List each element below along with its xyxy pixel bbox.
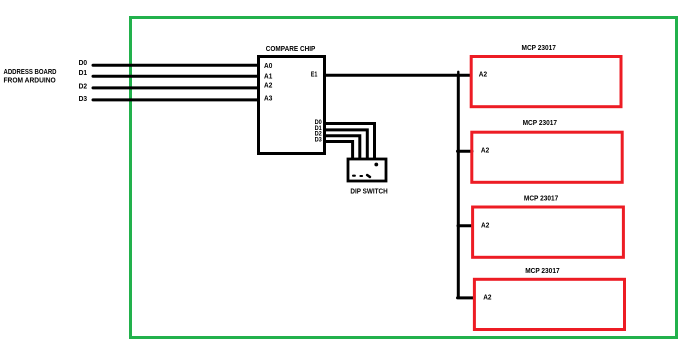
label ADDRESS BOARD FROM ARDUINO [4,67,57,85]
wire D1 input [93,75,258,78]
svg-text:D2: D2 [79,82,88,91]
wire D0 to DIP switch [325,124,375,160]
svg-text:D3: D3 [79,94,88,103]
IC MCP 23017 #2 (body) [472,132,622,182]
svg-text:A1: A1 [264,72,272,81]
dip switch dash mark 1 [352,175,356,177]
svg-text:D0: D0 [79,58,88,67]
wire stub to MCP #2 [458,150,473,153]
svg-text:MCP 23017: MCP 23017 [524,193,558,202]
wire D0 input [93,64,258,67]
IC U1 COMPARE CHIP (body) [259,57,325,154]
wire trunk (E1 bus vertical) [457,75,460,298]
wire E1 to MCP bank [325,74,471,77]
svg-text:A2: A2 [481,146,489,155]
dip switch S1 (body) [348,159,386,181]
svg-text:COMPARE CHIP: COMPARE CHIP [266,44,316,53]
IC MCP 23017 #4 (body) [474,279,624,329]
IC MCP 23017 #3 (body) [473,207,624,257]
wire stub to MCP #3 [458,224,472,227]
junction tick at E1/trunk [457,72,459,76]
board outline (green frame) [131,18,677,338]
svg-text:A2: A2 [479,70,487,79]
dip switch dot mark [374,163,378,167]
IC MCP 23017 #1 (body) [471,57,621,107]
wire D3 input [93,98,258,101]
svg-text:MCP 23017: MCP 23017 [522,43,556,52]
wire stub to MCP #4 [458,296,474,299]
svg-text:MCP 23017: MCP 23017 [525,266,559,275]
svg-text:A3: A3 [264,93,272,102]
svg-text:A2: A2 [483,293,491,302]
svg-text:MCP 23017: MCP 23017 [523,118,557,127]
svg-text:D1: D1 [79,68,88,77]
svg-text:A0: A0 [264,61,272,70]
svg-text:FROM ARDUINO: FROM ARDUINO [4,75,56,84]
svg-text:D3: D3 [315,137,323,143]
svg-text:A2: A2 [264,81,272,90]
dip switch angled mark 3 [367,175,370,177]
svg-text:DIP SWITCH: DIP SWITCH [350,187,387,196]
wire D2 input [93,86,258,89]
wire D1 to DIP switch [325,130,368,160]
wire D2 to DIP switch [325,136,360,160]
svg-text:E1: E1 [311,69,318,78]
svg-text:A2: A2 [481,220,489,229]
dip switch dash mark 2 [359,175,363,177]
wire D3 to DIP switch [325,142,353,160]
